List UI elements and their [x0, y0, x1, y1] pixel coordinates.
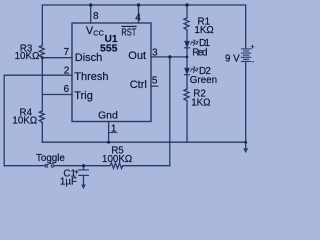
- svg-text:10KΩ: 10KΩ: [15, 51, 40, 62]
- LED D1: [185, 41, 190, 47]
- svg-text:Toggle: Toggle: [36, 153, 65, 164]
- wire pin3 Out: [151, 56, 187, 58]
- wire pin6 Trig: [42, 94, 72, 96]
- resistor R4 zigzag: [39, 111, 44, 123]
- svg-text:Ctrl: Ctrl: [130, 79, 147, 91]
- svg-text:Thresh: Thresh: [74, 71, 108, 83]
- node dot pin4/rail: [137, 3, 140, 6]
- svg-text:Trig: Trig: [74, 90, 93, 102]
- svg-text:1KΩ: 1KΩ: [191, 98, 210, 109]
- wire pin1 Gnd: [108, 122, 110, 143]
- svg-text:9 V: 9 V: [225, 54, 240, 65]
- wire right rail lower (battery bottom lead): [245, 62, 247, 143]
- battery V1 9V: [242, 49, 251, 62]
- capacitor C1 plates: [79, 170, 89, 176]
- LED D2 light arrows: [190, 67, 198, 73]
- wire pin5 Ctrl stub: [151, 85, 158, 87]
- LED D2: [185, 68, 190, 74]
- wire R5 right to feedback corner: [123, 165, 170, 167]
- svg-text:1KΩ: 1KΩ: [194, 25, 213, 36]
- svg-text:Gnd: Gnd: [98, 110, 118, 122]
- switch Toggle: [45, 163, 54, 167]
- node dot C1 tap: [82, 164, 85, 167]
- svg-text:6: 6: [64, 84, 70, 95]
- node dot R3 bottom junction: [41, 56, 44, 59]
- svg-text:RST: RST: [121, 27, 136, 39]
- svg-text:3: 3: [152, 47, 158, 58]
- wire toggle segment: [4, 165, 45, 167]
- capacitor C1 stem top: [83, 166, 85, 170]
- node dot bus/battery corner: [244, 141, 247, 144]
- svg-text:+: +: [74, 168, 79, 177]
- svg-text:5: 5: [152, 76, 158, 87]
- resistor R1 zigzag: [184, 18, 189, 30]
- svg-text:Red: Red: [192, 48, 207, 59]
- node dot Out/LED column: [186, 56, 189, 59]
- resistor R2 zigzag: [184, 89, 189, 101]
- ground arrow right: [245, 142, 247, 149]
- capacitor C1 stem bottom + ground arrow: [83, 175, 85, 185]
- wire pin8: [90, 5, 92, 23]
- resistor R5 zigzag: [110, 163, 123, 169]
- node dot R1/rail: [185, 3, 188, 6]
- svg-text:555: 555: [100, 42, 118, 54]
- svg-text:100KΩ: 100KΩ: [102, 154, 132, 165]
- wire D2 to R2: [186, 76, 188, 89]
- LED D1 light arrows: [190, 40, 198, 46]
- node dot pin8/rail: [89, 3, 92, 6]
- svg-text:Out: Out: [128, 50, 146, 62]
- wire R4 bottom to ground bus: [41, 123, 43, 143]
- wire left rail: [3, 75, 5, 166]
- svg-text:8: 8: [93, 11, 99, 22]
- resistor R1 top lead: [186, 5, 188, 18]
- wire pin2 Thresh (to left rail): [4, 74, 72, 76]
- svg-text:CC: CC: [93, 29, 104, 38]
- svg-text:4: 4: [135, 13, 141, 24]
- resistor R3 zigzag: [39, 46, 44, 58]
- resistor R3 column top lead: [41, 5, 43, 46]
- wire right rail upper (battery top lead): [245, 5, 247, 49]
- op-amp U1 555 IC box: [72, 23, 151, 122]
- svg-text:1: 1: [111, 123, 117, 134]
- wire pin7 Disch: [42, 57, 72, 59]
- svg-text:Disch: Disch: [75, 52, 103, 64]
- wire R2 to ground bus: [186, 101, 188, 142]
- wire R3 bottom to R4 top: [41, 58, 43, 111]
- svg-text:7: 7: [64, 47, 70, 58]
- wire feedback vertical (R5 to Out): [169, 57, 171, 166]
- wire R1 to D1: [186, 30, 188, 41]
- wire switch to C1 to R5: [54, 165, 110, 167]
- ground bus wire: [42, 141, 245, 143]
- wire D1 to D2: [186, 48, 188, 68]
- svg-text:10KΩ: 10KΩ: [12, 116, 37, 127]
- svg-text:+: +: [251, 44, 255, 51]
- node dot Out/feedback: [168, 55, 171, 58]
- svg-text:1µF: 1µF: [60, 177, 77, 188]
- wire pin4: [138, 5, 140, 23]
- wire top rail Vcc: [42, 4, 245, 6]
- node dot pin1/bus: [107, 141, 110, 144]
- wire pin1 underline: [109, 132, 117, 134]
- svg-text:Green: Green: [190, 75, 217, 86]
- svg-text:2: 2: [64, 65, 70, 76]
